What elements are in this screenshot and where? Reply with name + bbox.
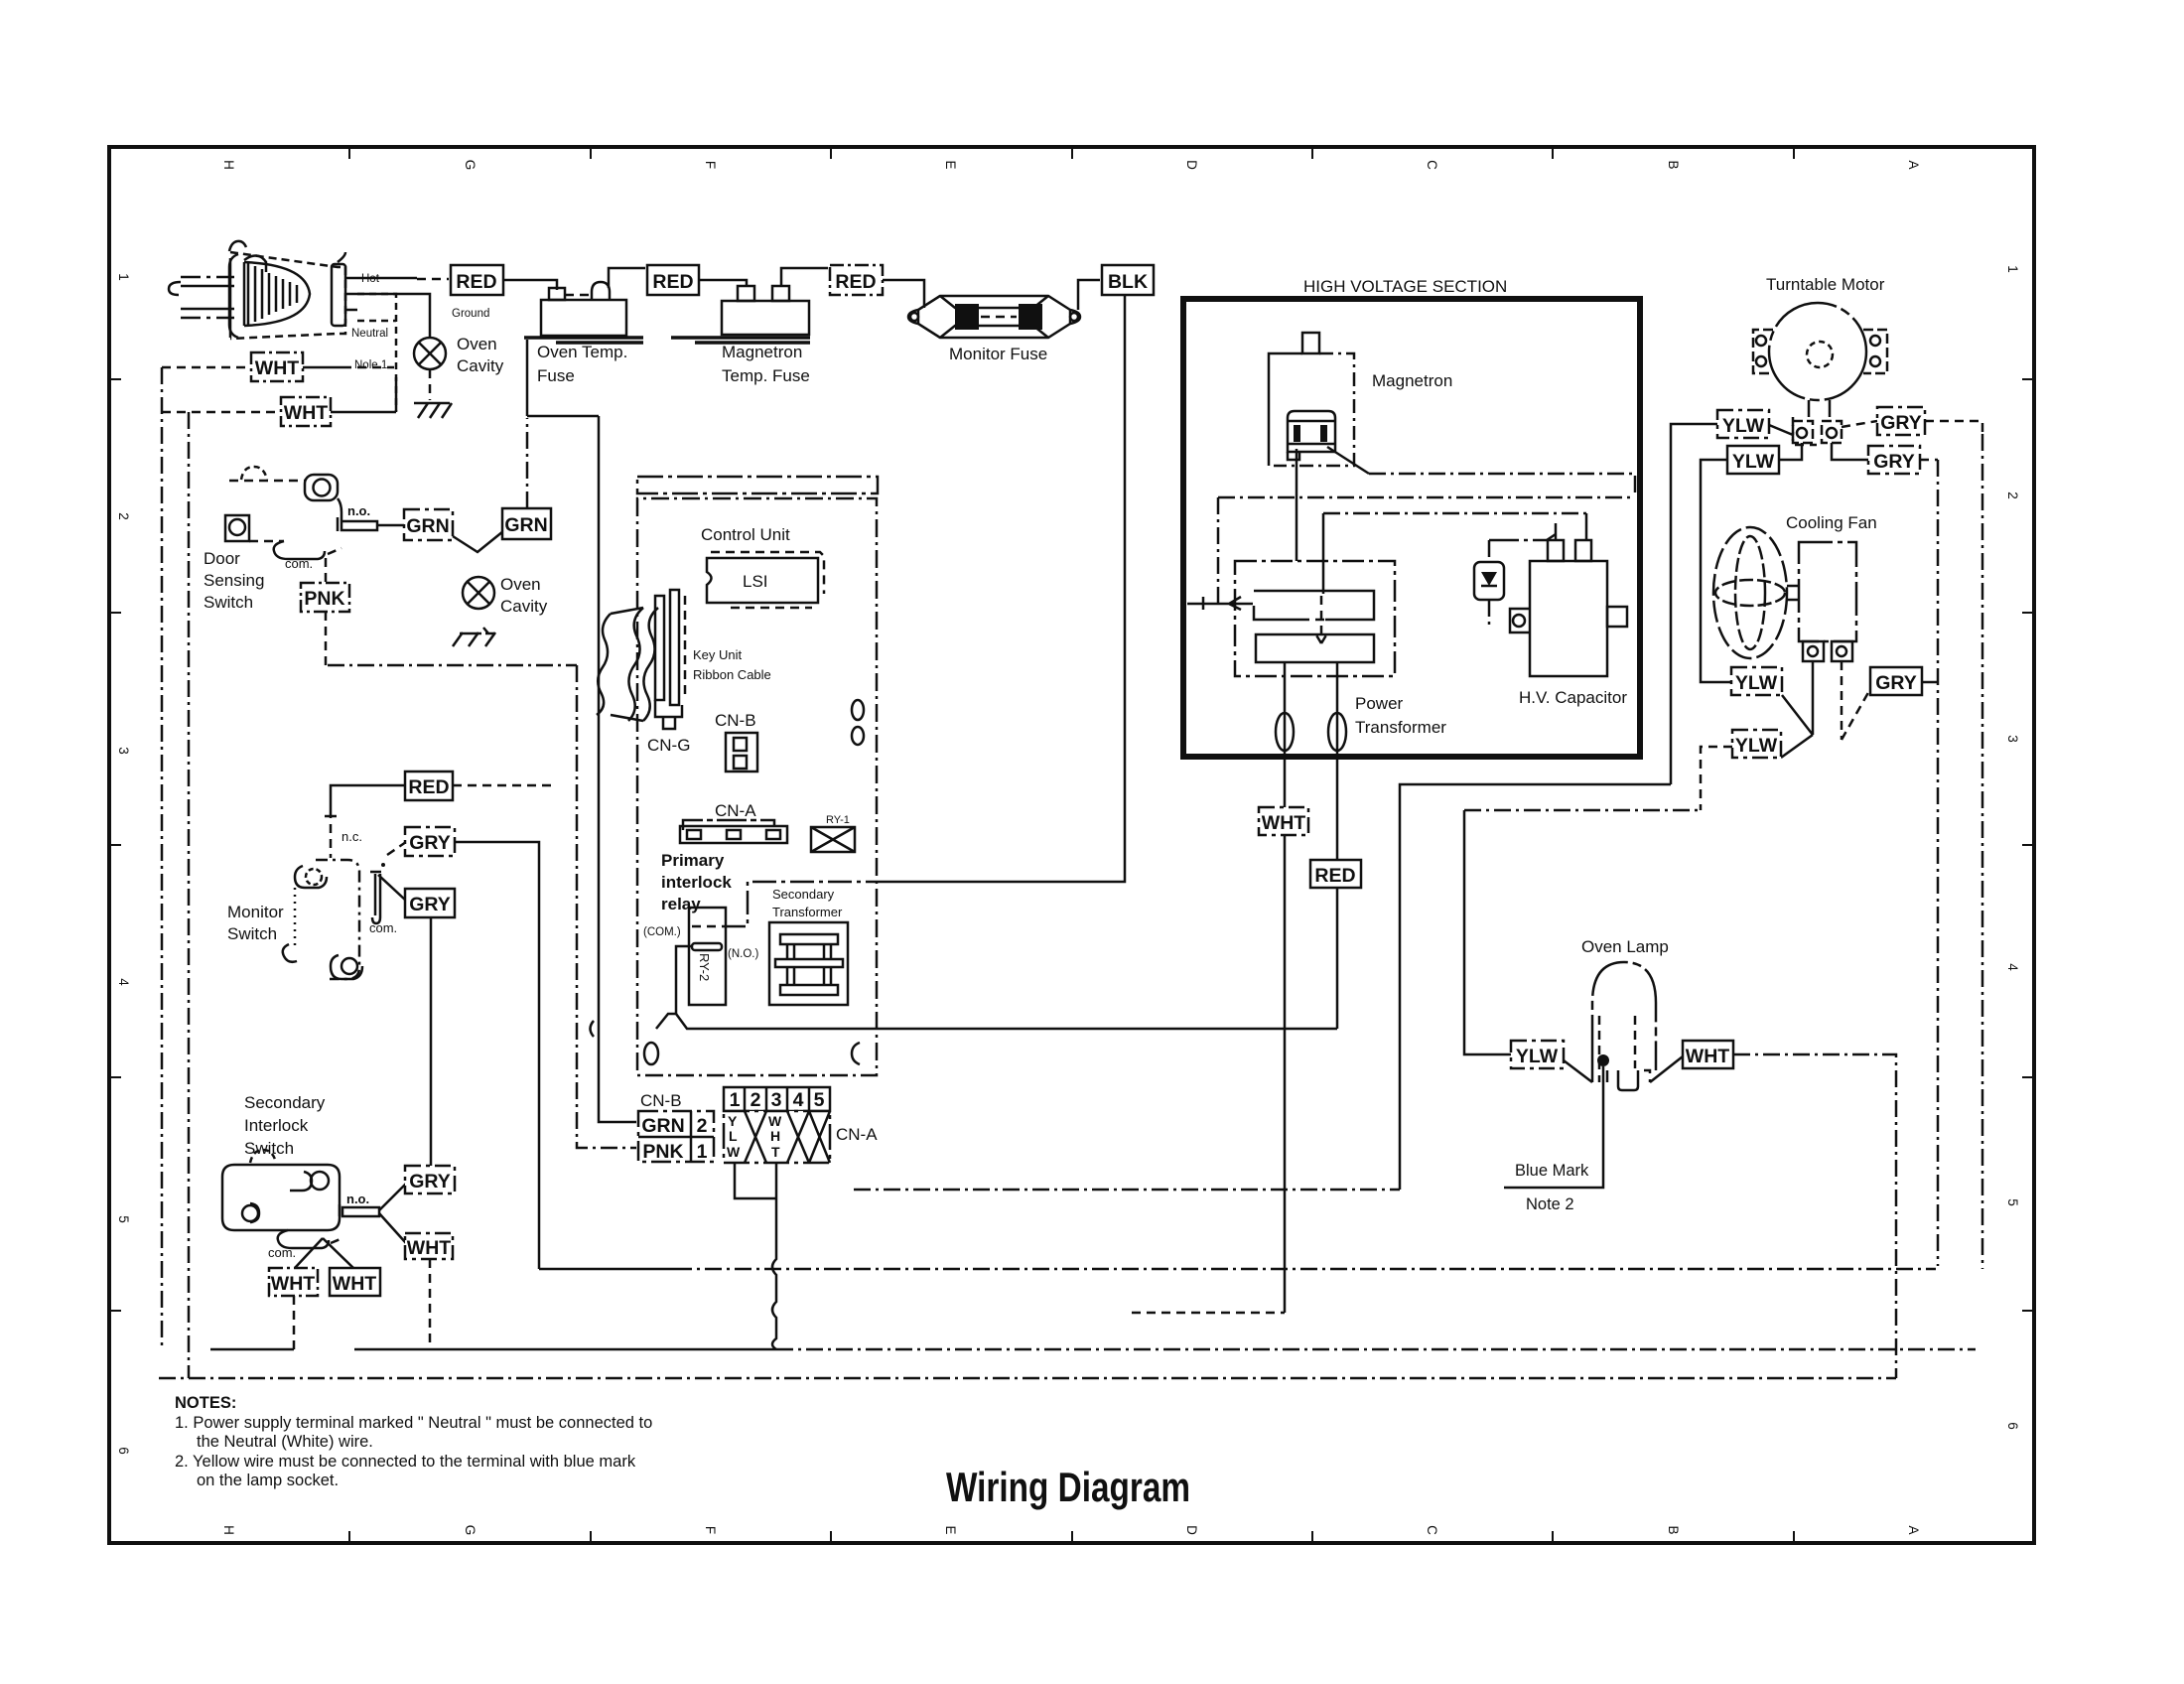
wire crossing hop at x603 on y1036 [591,1021,595,1037]
svg-text:Ground: Ground [452,308,489,320]
svg-text:Temp. Fuse: Temp. Fuse [722,366,810,385]
control unit board [637,477,878,1075]
svg-text:Nole 1: Nole 1 [354,359,387,371]
svg-text:relay: relay [661,895,701,913]
wire-label WHT (bottom left) [269,1268,318,1296]
svg-text:CN-G: CN-G [647,736,690,755]
svg-text:Switch: Switch [204,593,253,612]
svg-text:H: H [770,1128,780,1144]
svg-text:GRY: GRY [1873,451,1915,473]
svg-text:6: 6 [2005,1422,2020,1430]
svg-text:com.: com. [369,920,397,935]
svg-text:PNK: PNK [642,1141,683,1163]
svg-text:H.V. Capacitor: H.V. Capacitor [1519,688,1627,707]
svg-text:3: 3 [771,1089,782,1111]
wire vee to YLW4 [1781,735,1813,758]
wire com to WHT pair [295,1238,353,1268]
relay RY-2 (primary interlock relay) [689,908,726,1005]
svg-text:Interlock: Interlock [244,1116,309,1135]
svg-text:WHT: WHT [255,357,299,379]
wire neutral to WHT [162,366,251,369]
svg-text:RED: RED [456,271,496,293]
svg-text:L: L [729,1128,738,1144]
power supply plug [169,241,357,339]
border zone numbers right [2005,265,2020,1430]
wire YLW1 left to loop [1671,424,1717,784]
wire GRY bus x1952 [1937,460,1940,1266]
svg-text:RY-1: RY-1 [826,814,850,826]
key unit ribbon cable [597,608,658,721]
connector CN-B pin table [638,1111,714,1163]
secondary transformer T2 [769,922,848,1005]
svg-text:RED: RED [408,776,449,798]
svg-text:WHT: WHT [407,1237,451,1259]
wire HV left drop x1227 [1217,497,1220,603]
wire lamp loop top [1464,809,1701,812]
svg-text:YLW: YLW [1732,451,1775,473]
wire magnetron temp fuse to RED3 [781,268,828,286]
svg-text:RED: RED [652,271,693,293]
svg-text:Oven: Oven [500,575,541,594]
svg-text:Monitor Fuse: Monitor Fuse [949,345,1047,363]
svg-text:(COM.): (COM.) [643,926,681,938]
svg-text:Control Unit: Control Unit [701,525,790,544]
wire motor to GRY5 [1832,443,1868,460]
svg-text:A: A [1906,160,1921,169]
magnetron temp. fuse [671,286,810,343]
wire monitor nc to GRY [387,842,406,855]
svg-text:Transformer: Transformer [1355,718,1446,737]
wire bus y1359 [210,1348,776,1351]
oven temp. fuse [524,282,643,343]
secondary interlock switch [222,1150,379,1248]
chassis ground symbol (lower) [453,628,495,646]
lamp symbol Oven Cavity (upper) [414,338,446,369]
wire WHT lamp to socket [1650,1056,1683,1082]
svg-text:H: H [221,1525,236,1535]
svg-text:Neutral: Neutral [351,328,388,340]
wire HV bus y501 [1218,496,1635,499]
lamp symbol Oven Cavity (lower) [463,577,494,609]
wire HV exit down to x1410 [1400,784,1671,1190]
border zone numbers left [116,273,131,1455]
wire-label RED (1) [451,265,503,295]
wire-label GRY (3) [405,1166,455,1193]
wire GRY6 right [1922,681,1938,684]
svg-text:Wiring Diagram: Wiring Diagram [946,1464,1190,1510]
turntable motor terminal block [1793,400,1842,445]
svg-text:2: 2 [116,512,131,520]
wire-label YLW (lamp) [1511,1041,1564,1068]
wire CN-A pin3 long vertical with hops [772,1163,776,1349]
svg-text:5: 5 [116,1215,131,1223]
wire GRN2 up to fuse line [526,418,529,508]
wire bus y1198 [854,1189,1400,1192]
wire WHT lamp right to return bus [1733,1054,1896,1378]
svg-text:HIGH VOLTAGE SECTION: HIGH VOLTAGE SECTION [1303,277,1507,296]
diode D1 [1474,534,1556,627]
svg-text:com.: com. [285,556,313,571]
relay RY-1 [811,827,855,852]
wire bus y1278 [539,1268,675,1271]
svg-text:F: F [703,161,718,169]
svg-text:Switch: Switch [227,924,277,943]
wire-label RED (3) [830,265,883,295]
wire HV bus y517 [1323,512,1586,515]
svg-text:E: E [943,1525,958,1534]
svg-text:C: C [1425,1525,1439,1535]
svg-text:YLW: YLW [1516,1046,1559,1067]
high voltage section enclosure [1183,299,1640,757]
svg-text:LSI: LSI [743,572,768,591]
border zone letters top [221,160,1921,171]
wire motor to YLW2 [1779,443,1802,460]
svg-text:Oven Lamp: Oven Lamp [1581,937,1669,956]
wire n.o. lever to GRN [376,524,404,527]
lead insulator right [1328,713,1346,751]
svg-text:RY-2: RY-2 [697,953,712,981]
wire motor to GRY4 [1842,421,1877,427]
wire PNK bus to control unit [328,664,577,667]
svg-text:2: 2 [751,1089,761,1111]
wire lamp loop left drop [1464,810,1511,1054]
wire-label YLW (3) [1731,667,1782,695]
svg-text:n.c.: n.c. [341,829,362,844]
svg-text:YLW: YLW [1735,672,1778,694]
svg-text:2: 2 [2005,491,2020,499]
svg-text:com.: com. [268,1245,296,1260]
wire filament to capacitor top bus [1369,474,1635,497]
wire GRY2 down to GRY3 [430,917,433,1166]
svg-text:1: 1 [730,1089,741,1111]
wire GRY4 right to bus [1925,421,1982,434]
svg-text:CN-B: CN-B [640,1091,682,1110]
wire monitor com to GRY2 [378,875,406,901]
svg-text:Sensing: Sensing [204,571,264,590]
svg-text:1. Power supply terminal mark: 1. Power supply terminal marked " Neutra… [175,1414,652,1432]
svg-text:CN-B: CN-B [715,711,756,730]
svg-text:2: 2 [697,1115,708,1137]
wire YLW4 left dash to lamp loop [1701,747,1732,810]
svg-text:2. Yellow wire must be connec: 2. Yellow wire must be connected to the … [175,1453,636,1471]
svg-text:B: B [1666,1525,1681,1534]
wire junction peak to long bus y1036 [656,1014,1337,1029]
svg-text:Y: Y [728,1113,738,1129]
svg-text:Monitor: Monitor [227,903,284,921]
wire-label GRN (2) [502,508,551,539]
connector CN-B (on board) [726,733,757,772]
svg-text:Cavity: Cavity [500,597,548,616]
wire GRY bus x1997 [1981,434,1984,1269]
svg-text:CN-A: CN-A [715,801,756,820]
svg-text:interlock: interlock [661,873,732,892]
wire-label RED (transformer) [1310,860,1361,888]
svg-text:WHT: WHT [271,1273,315,1295]
wire RED4 left and down to n.c. [331,785,405,809]
wire-label BLK [1102,265,1154,295]
monitor switch [283,860,381,979]
svg-text:A: A [1906,1525,1921,1534]
wire com to PNK and down [325,558,328,665]
svg-text:Secondary: Secondary [772,887,835,902]
turntable motor M1 [1753,303,1887,400]
svg-text:WHT: WHT [1686,1046,1729,1067]
svg-text:CN-A: CN-A [836,1125,878,1144]
wire PNK vertical bus x581 [577,665,636,1148]
wire Ground pin down to chassis [357,294,430,338]
svg-text:E: E [943,160,958,169]
connector CN-G [655,590,685,729]
svg-text:GRY: GRY [409,832,451,854]
wire-label GRY (1) [405,827,455,856]
wire transformer secondary leads down [1284,662,1287,1313]
svg-text:RED: RED [835,271,876,293]
svg-text:n.o.: n.o. [347,503,370,518]
wire-label RED (4) [405,772,453,800]
svg-text:GRN: GRN [406,515,449,537]
svg-text:WHT: WHT [1262,812,1305,834]
svg-text:Magnetron: Magnetron [1372,371,1452,390]
svg-text:1: 1 [116,273,131,281]
svg-text:Power: Power [1355,694,1404,713]
wire-label WHT (bottom right) [330,1268,380,1296]
svg-text:Ribbon Cable: Ribbon Cable [693,667,771,682]
wire fan left terminal to vee [1782,661,1813,735]
wire-label YLW (1) [1717,410,1769,438]
wire n.o. to GRY3 and WHT [379,1184,406,1243]
wire-label GRN (1) [404,509,453,540]
wire WHT down [429,1259,432,1349]
wire bus y1388 [159,1377,1896,1380]
H.V. capacitor C1 [1510,540,1627,676]
svg-text:GRY: GRY [1875,672,1917,694]
svg-text:W: W [768,1113,782,1129]
wire capacitor terminal drops [1556,513,1586,540]
svg-text:Hot: Hot [361,273,380,285]
wire RED3 to monitor fuse [883,280,924,308]
svg-text:Oven Temp.: Oven Temp. [537,343,627,361]
wire neutral bus left (x164) [161,367,164,1349]
board mounting holes bottom [644,1043,658,1064]
svg-text:Secondary: Secondary [244,1093,326,1112]
door sensing switch [225,467,377,559]
svg-text:Note 2: Note 2 [1526,1195,1574,1213]
board holes [852,700,864,720]
svg-text:PNK: PNK [304,588,344,610]
cooling fan M2 [1713,527,1856,661]
svg-text:1: 1 [697,1141,708,1163]
wire RED2 to magnetron temp fuse [699,280,747,286]
svg-text:the Neutral (White) wire.: the Neutral (White) wire. [197,1433,373,1451]
svg-text:Turntable Motor: Turntable Motor [1766,275,1885,294]
svg-text:F: F [703,1526,718,1534]
svg-text:5: 5 [814,1089,825,1111]
svg-text:G: G [463,1525,478,1536]
svg-text:H: H [221,160,236,170]
wire neutral bus left (x190) [188,412,191,1378]
wire CN-A pin1 down elbow [735,1163,776,1198]
wire oven temp fuse to RED2 [609,268,645,288]
border zone letters bottom [221,1525,1921,1536]
svg-text:Cooling Fan: Cooling Fan [1786,513,1877,532]
wire WHT bottom down to bus [293,1296,296,1349]
monitor fuse [908,296,1080,338]
wire transformer HV lead x1333 [1322,513,1325,594]
svg-text:(N.O.): (N.O.) [728,948,758,960]
svg-text:C: C [1425,160,1439,170]
wire BLK down to primary interlock relay COM [877,295,1125,882]
svg-text:YLW: YLW [1722,415,1765,437]
notes block [175,1394,652,1489]
svg-text:GRY: GRY [409,1171,451,1193]
svg-text:WHT: WHT [333,1273,376,1295]
svg-text:5: 5 [2005,1198,2020,1206]
wire YLW lamp to socket [1564,1060,1592,1082]
wire neutral lower WHT [162,411,281,414]
wire-label WHT (transformer) [1259,807,1308,835]
wire relay RY-2 N.O. down to junction [676,946,692,1014]
Note 1 dashed callout around Neutral terminal [357,294,396,411]
lead insulator left [1276,713,1294,751]
wire YLW2 left and down [1701,460,1731,682]
connector CN-A (on board) [680,820,787,843]
wire-label GRY (4) [1877,407,1925,435]
wire RED1 to oven temp fuse [503,280,557,290]
wire-label WHT (right of n.o.) [405,1233,453,1259]
svg-text:4: 4 [2005,963,2020,971]
wire magnetron filament left down to transformer [1296,449,1298,561]
svg-text:GRN: GRN [504,514,547,536]
wire fan right terminal dash to GRY6 [1842,661,1870,740]
svg-text:RED: RED [1314,865,1355,887]
svg-text:D: D [1184,1525,1199,1535]
svg-text:Primary: Primary [661,851,725,870]
svg-text:GRY: GRY [1880,412,1922,434]
svg-text:Magnetron: Magnetron [722,343,802,361]
wire RED4 right [453,784,556,787]
sheet border frame [109,147,2034,1543]
svg-text:G: G [463,160,478,171]
svg-text:6: 6 [116,1447,131,1455]
svg-text:3: 3 [2005,735,2020,743]
svg-text:D: D [1184,160,1199,170]
wire monitor fuse to BLK [1078,280,1100,310]
svg-text:B: B [1666,160,1681,169]
wire relay RY-2 COM up/right to BLK bus [722,882,877,926]
svg-text:on the lamp socket.: on the lamp socket. [197,1472,339,1489]
svg-text:YLW: YLW [1735,735,1778,757]
connector CN-A pin block [724,1087,830,1163]
svg-text:3: 3 [116,747,131,755]
blue mark leader line [1504,1066,1603,1188]
svg-text:Fuse: Fuse [537,366,575,385]
svg-text:NOTES:: NOTES: [175,1394,236,1412]
wire motor to YLW1 [1769,425,1793,435]
wire GRN vertical bus x603 [599,416,636,1122]
wire-label YLW (4) [1732,730,1781,758]
svg-text:WHT: WHT [284,402,328,424]
wire-label GRY (5) [1868,446,1920,474]
wire-label GRY (6) [1870,667,1922,695]
svg-text:Oven: Oven [457,335,497,353]
wire GRY5 right dash [1920,459,1938,462]
svg-text:T: T [771,1144,780,1160]
svg-text:Door: Door [204,549,240,568]
svg-text:4: 4 [116,978,131,986]
wire-label WHT (neutral, lower) [281,397,331,426]
power transformer T1 [1187,561,1395,676]
wire-label RED (2) [647,265,699,295]
chassis ground symbol (upper) [414,403,452,418]
svg-text:n.o.: n.o. [346,1192,369,1206]
wire-label GRY (2) [405,889,455,917]
wire bus corner to oven temp fuse [527,340,599,416]
magnetron [1269,333,1354,466]
wire magnetron filament right diagonal [1327,447,1369,474]
svg-text:4: 4 [793,1089,804,1111]
wire GRN to GRN vee [453,531,503,552]
svg-text:Switch: Switch [244,1139,294,1158]
wire-label PNK [301,583,349,612]
svg-text:1: 1 [2005,265,2020,273]
svg-text:GRY: GRY [409,894,451,915]
wire-label WHT (neutral, upper) [251,352,303,381]
wire bus y1322 stub [1132,1312,1285,1315]
svg-text:Blue Mark: Blue Mark [1515,1162,1589,1180]
LSI chip U1 [707,552,824,608]
svg-text:GRN: GRN [641,1115,684,1137]
wire Hot plug to RED [357,277,417,280]
svg-text:Transformer: Transformer [772,905,843,919]
svg-text:W: W [727,1144,741,1160]
wire GRY1 right to bus [455,842,539,1269]
svg-text:Cavity: Cavity [457,356,504,375]
wire-label YLW (2) [1727,446,1779,474]
svg-text:Key Unit: Key Unit [693,647,743,662]
wire-label WHT (lamp) [1683,1041,1733,1068]
svg-text:BLK: BLK [1108,271,1148,293]
oven lamp L1 [1592,962,1656,1090]
